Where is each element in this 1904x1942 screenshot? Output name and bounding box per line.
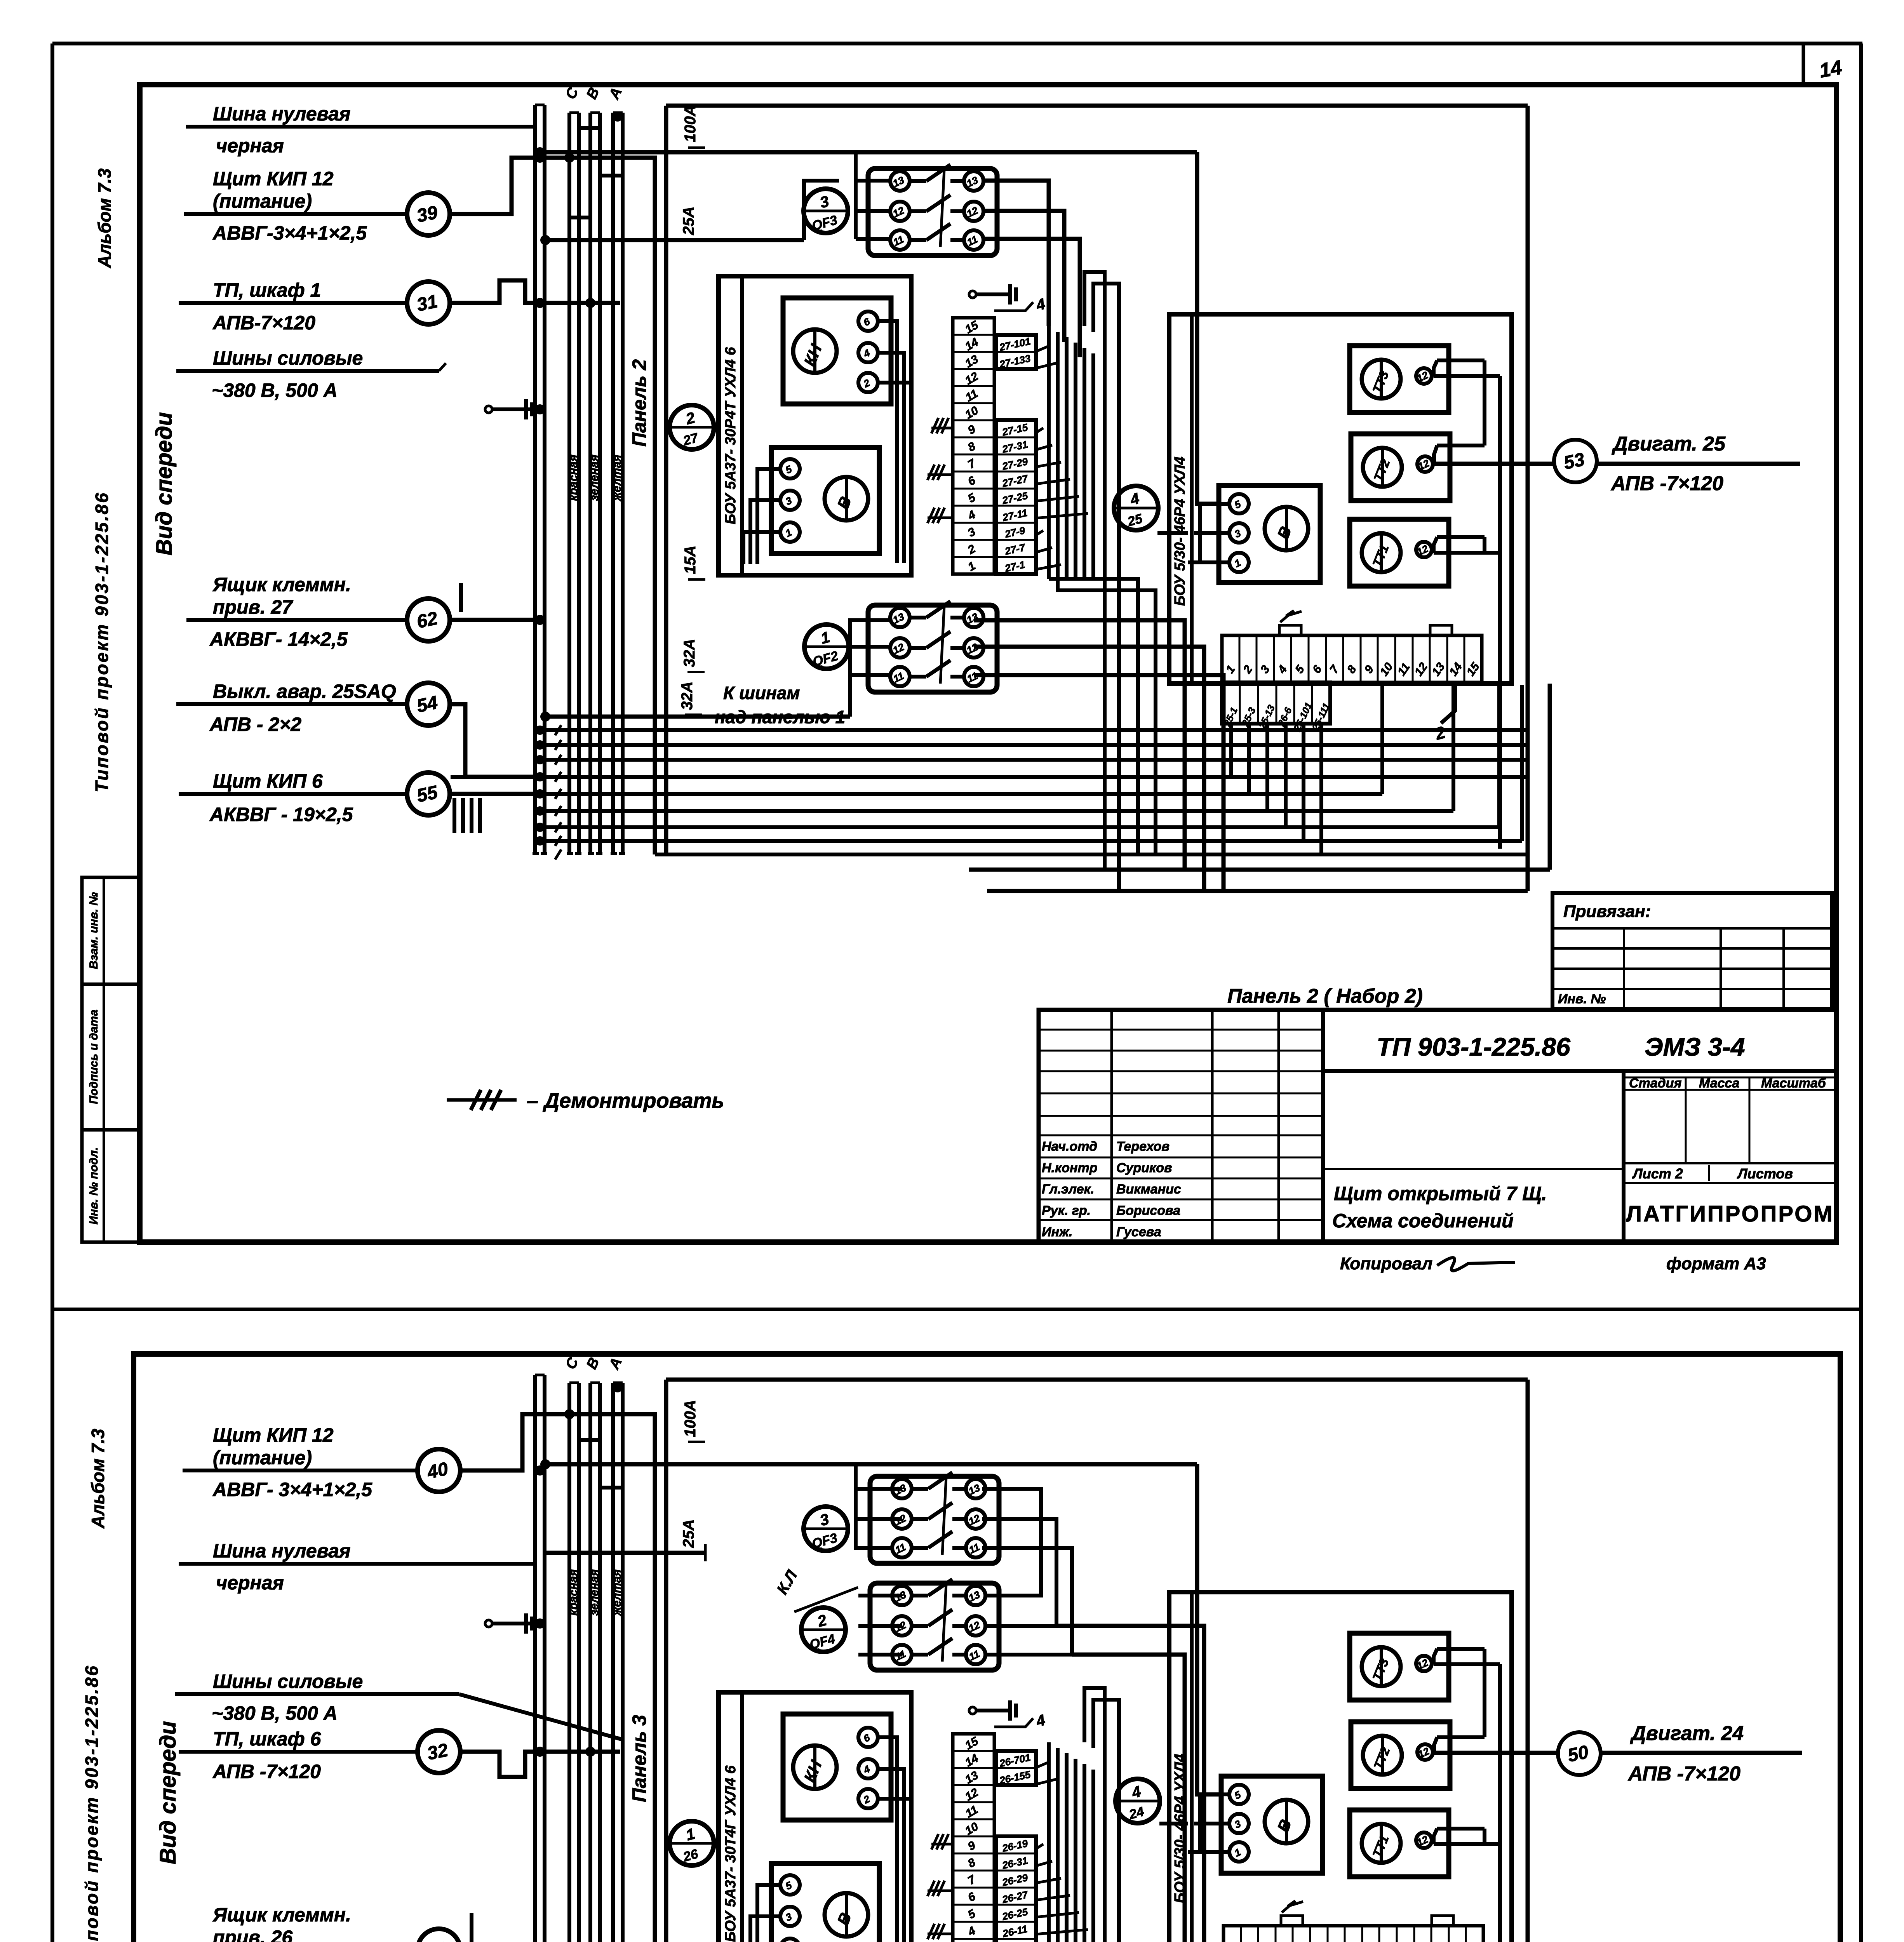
QF3 left drop <box>854 152 858 239</box>
elbow3 <box>569 218 590 240</box>
QF2 out a <box>974 620 1185 870</box>
current transformer TT2 box <box>1351 434 1450 501</box>
svg-text:Ящик клеммн.: Ящик клеммн. <box>212 1904 351 1926</box>
svg-text:АВВГ- 3×4+1×2,5: АВВГ- 3×4+1×2,5 <box>212 1479 372 1500</box>
hatch cb <box>928 1924 935 1939</box>
QF4 stub b <box>858 1624 902 1628</box>
svg-text:Суриков: Суриков <box>1116 1161 1172 1175</box>
sheet separator line <box>52 1308 1861 1311</box>
svg-text:красная: красная <box>567 1569 580 1616</box>
svg-text:~380 В, 500 А: ~380 В, 500 А <box>212 379 338 401</box>
drawing frame <box>134 1354 1840 1942</box>
breaker QF3 box <box>868 169 997 256</box>
svg-text:Копировал: Копировал <box>1340 1254 1432 1273</box>
svg-text:14: 14 <box>1818 56 1844 82</box>
panel designator 2/27 <box>670 405 714 449</box>
current transformer TT3 b box <box>1350 1633 1449 1700</box>
terminal strip XT24 <box>1224 1926 1483 1942</box>
svg-text:Гл.элек.: Гл.элек. <box>1042 1182 1094 1197</box>
wire C drop to B meter <box>1197 152 1220 504</box>
svg-text:АКВВГ- 14×2,5: АКВВГ- 14×2,5 <box>209 628 348 650</box>
QF3b stub a <box>856 1487 902 1491</box>
cable marker 62 <box>407 599 450 641</box>
riser return b <box>1093 284 1119 893</box>
right loop wire <box>1526 106 1530 891</box>
riser return a <box>1084 272 1105 870</box>
svg-text:Ящик клеммн.: Ящик клеммн. <box>212 574 351 595</box>
current transformer TT3 box <box>1350 346 1449 412</box>
wire 39 to strip drop <box>450 158 655 854</box>
svg-text:31: 31 <box>415 291 439 315</box>
svg-text:АПВ - 2×2: АПВ - 2×2 <box>209 713 301 735</box>
breaker QF3 b box <box>870 1476 999 1563</box>
QF3 out wire b <box>982 211 1064 342</box>
svg-text:25А: 25А <box>680 207 697 235</box>
svg-text:Альбом 7.3: Альбом 7.3 <box>94 168 115 268</box>
hatch b <box>928 465 935 480</box>
elbow b2 <box>600 1464 623 1488</box>
label hook wires b <box>1036 1762 1049 1768</box>
QF3 out wire c <box>982 239 1080 357</box>
margin stamp boxes <box>82 877 140 984</box>
terminal strip XT24 lug 2 <box>1432 1916 1453 1926</box>
instrument panel box b <box>719 1692 911 1942</box>
feeder wire 25A <box>545 238 804 242</box>
svg-text:54: 54 <box>415 692 439 717</box>
page outer border right <box>1859 44 1863 1942</box>
wire C drop to B meter b <box>1197 1464 1220 1794</box>
wire 32A <box>545 715 850 719</box>
elbow b <box>579 1440 600 1464</box>
riser return bb <box>1093 1700 1119 1942</box>
top loop wire b <box>666 1378 1528 1382</box>
QF4 out a <box>1072 1655 1185 1942</box>
svg-text:черная: черная <box>216 1572 284 1594</box>
breaker QF2 tie bar <box>940 606 944 684</box>
TT U-loop wires b <box>1434 1662 1500 1666</box>
svg-text:25А: 25А <box>680 1519 697 1548</box>
hatch c <box>928 508 935 523</box>
wire to 4/24 <box>1159 1822 1188 1825</box>
wire bundle bottom <box>540 728 1528 732</box>
svg-text:зеленая: зеленая <box>588 1569 601 1616</box>
bundle risers to panel bottom <box>1380 685 1384 794</box>
svg-text:желтая: желтая <box>611 454 623 501</box>
breaker QF3 b designator <box>804 1507 848 1551</box>
svg-text:прив. 26: прив. 26 <box>213 1926 293 1942</box>
instrument panel box <box>719 276 911 575</box>
QF3b feed <box>856 1464 893 1548</box>
page outer border left <box>50 44 54 1942</box>
svg-text:Вид спереди: Вид спереди <box>151 412 177 555</box>
svg-text:Масштаб: Масштаб <box>1761 1076 1826 1091</box>
svg-text:(питание): (питание) <box>213 1447 312 1469</box>
svg-text:Н.контр: Н.контр <box>1042 1161 1098 1175</box>
right loop riser 2 <box>1548 684 1552 870</box>
svg-text:32А: 32А <box>679 682 696 710</box>
svg-text:БОУ 5А37- 30Р4Т УХЛ4 6: БОУ 5А37- 30Р4Т УХЛ4 6 <box>722 347 739 524</box>
reference box Привязан <box>1552 893 1832 1009</box>
svg-text:Вид спереди: Вид спереди <box>155 1721 181 1864</box>
wire to QF3 <box>804 181 839 240</box>
breaker QF4 b designator <box>801 1608 846 1652</box>
label hook wires <box>1036 346 1049 352</box>
meter В b dial <box>825 1893 868 1937</box>
terminal strip XT27 labels <box>996 420 1036 574</box>
meter В dial <box>825 477 868 520</box>
breaker QF4 b box <box>870 1583 999 1670</box>
svg-text:Гусева: Гусева <box>1116 1225 1161 1239</box>
cable marker 39 <box>407 193 450 235</box>
terminal strip XT25 cable labels <box>1222 682 1330 724</box>
svg-text:ТП, шкаф 1: ТП, шкаф 1 <box>213 279 321 301</box>
bus bars <box>533 105 537 853</box>
current transformer TT1 box <box>1350 519 1449 586</box>
QF3b stub b <box>856 1517 902 1521</box>
terminal strip XT25 lug <box>1279 625 1301 635</box>
panel designator 4/24 <box>1116 1779 1160 1823</box>
svg-text:Подпись и дата: Подпись и дата <box>87 1009 100 1104</box>
meter В right b dial <box>1265 1800 1308 1843</box>
svg-text:53: 53 <box>1562 449 1587 473</box>
svg-text:Инв. № подл.: Инв. № подл. <box>87 1147 100 1224</box>
svg-text:АПВ-7×120: АПВ-7×120 <box>212 312 315 334</box>
cable marker 53 <box>1554 440 1597 482</box>
svg-text:Типовой проект 903-1-225.86: Типовой проект 903-1-225.86 <box>82 1664 102 1942</box>
callout 4 <box>994 302 1033 311</box>
svg-text:100А: 100А <box>682 1400 699 1437</box>
terminal strip XT26 labels 101 <box>996 1751 1036 1785</box>
svg-text:Щит КИП 12: Щит КИП 12 <box>213 1424 334 1446</box>
current transformer TT1 b box <box>1350 1810 1449 1877</box>
cable marker 54 <box>407 683 450 726</box>
QF4 out b <box>1056 1626 1204 1942</box>
svg-text:~380 В, 500 А: ~380 В, 500 А <box>212 1702 338 1724</box>
meter В right dial <box>1265 507 1308 550</box>
svg-text:62: 62 <box>415 608 440 632</box>
terminal strip XT25 lug 2 <box>1430 625 1452 635</box>
svg-text:Листов: Листов <box>1737 1166 1793 1182</box>
terminal strip XT24 lug <box>1281 1916 1303 1926</box>
cable marker 40 <box>418 1449 460 1492</box>
meter В right box <box>1219 486 1320 583</box>
bus bars <box>533 1375 537 1942</box>
strip riser wires b <box>1047 1742 1051 1942</box>
svg-text:формат А3: формат А3 <box>1666 1254 1766 1273</box>
breaker QF2 box <box>868 605 997 692</box>
svg-text:Привязан:: Привязан: <box>1563 902 1651 921</box>
feeder 25A b <box>545 1551 707 1555</box>
strip drop wires <box>1229 724 1233 777</box>
callout 4 b <box>994 1718 1033 1727</box>
svg-text:Нач.отд: Нач.отд <box>1042 1139 1097 1154</box>
svg-text:БОУ 5А37- 30Т4Г УХЛ4 6: БОУ 5А37- 30Т4Г УХЛ4 6 <box>722 1765 739 1942</box>
strip ground tie b <box>969 1707 976 1714</box>
svg-text:черная: черная <box>216 135 284 157</box>
svg-text:15А: 15А <box>682 546 699 574</box>
page outer border top <box>52 42 1862 45</box>
QF2 out b <box>974 647 1204 891</box>
wire to 4/25 <box>1157 531 1188 535</box>
svg-text:Выкл. авар. 25SAQ: Выкл. авар. 25SAQ <box>213 680 396 702</box>
feeder wire C <box>545 150 1197 155</box>
wire 31 to bus <box>450 280 620 303</box>
QF4 stub c <box>858 1653 902 1657</box>
meter В right b box <box>1221 1776 1323 1873</box>
hatch ab <box>931 1834 938 1850</box>
diagonal to bus <box>459 1694 621 1739</box>
svg-text:32: 32 <box>425 1740 450 1764</box>
svg-text:Двигат. 24: Двигат. 24 <box>1630 1722 1744 1745</box>
cable marker 55 <box>407 773 450 815</box>
cable marker 31 <box>407 282 450 324</box>
right loop wire b <box>1526 1380 1530 1942</box>
wire 32 to bus <box>460 1752 620 1777</box>
svg-text:ЭМЗ 3-4: ЭМЗ 3-4 <box>1645 1032 1745 1061</box>
hatch bb <box>928 1881 935 1896</box>
terminal strip XT25 <box>1222 635 1482 682</box>
svg-text:ТП 903-1-225.86: ТП 903-1-225.86 <box>1377 1032 1571 1061</box>
title block sheet 2 <box>1039 1010 1836 1242</box>
elbow2 <box>600 152 623 176</box>
svg-text:Шина нулевая: Шина нулевая <box>213 103 350 125</box>
link c <box>982 1548 1072 1655</box>
link b <box>982 1519 1056 1626</box>
svg-text:Борисова: Борисова <box>1116 1203 1180 1218</box>
breaker QF3 tie bar <box>940 169 944 247</box>
meter panel right box b <box>1169 1592 1512 1942</box>
svg-text:Лист 2: Лист 2 <box>1632 1166 1683 1182</box>
svg-text:Альбом 7.3: Альбом 7.3 <box>88 1429 108 1529</box>
svg-text:Терехов: Терехов <box>1116 1139 1170 1154</box>
wire under note <box>705 728 1062 732</box>
svg-text:АПВ -7×120: АПВ -7×120 <box>1627 1763 1740 1785</box>
svg-text:зеленая: зеленая <box>588 454 601 501</box>
svg-text:(питание): (питание) <box>213 190 312 212</box>
meter КН b dial <box>793 1745 837 1789</box>
meter КН dial <box>793 329 837 373</box>
svg-text:прив. 27: прив. 27 <box>213 596 293 618</box>
svg-text:Панель 2: Панель 2 <box>628 359 650 447</box>
svg-text:над панелью 1: над панелью 1 <box>715 707 845 727</box>
svg-text:АПВ -7×120: АПВ -7×120 <box>212 1761 321 1782</box>
svg-text:Шины силовые: Шины силовые <box>213 1671 363 1692</box>
meter КН box <box>783 298 891 404</box>
svg-text:Щит КИП 6: Щит КИП 6 <box>213 770 323 792</box>
terminal strip XT26 <box>953 1734 994 1942</box>
svg-text:желтая: желтая <box>611 1569 623 1616</box>
svg-text:АПВ -7×120: АПВ -7×120 <box>1610 472 1723 495</box>
svg-text:Типовой проект 903-1-225.86: Типовой проект 903-1-225.86 <box>92 491 112 792</box>
svg-text:50: 50 <box>1566 1742 1591 1766</box>
elbow <box>579 128 600 152</box>
wire 62 to bus <box>450 618 540 622</box>
junction pair4 top b <box>613 1382 623 1392</box>
TT1 wire b <box>1434 1842 1500 1846</box>
svg-text:Инв. №: Инв. № <box>1558 992 1606 1006</box>
svg-text:Шина нулевая: Шина нулевая <box>213 1540 350 1562</box>
svg-text:Щит открытый 7 Щ.: Щит открытый 7 Щ. <box>1334 1183 1547 1204</box>
strip ground tie <box>969 291 976 298</box>
legend demolition <box>447 1098 517 1102</box>
svg-text:АКВВГ - 19×2,5: АКВВГ - 19×2,5 <box>209 804 353 825</box>
svg-text:Стадия: Стадия <box>1629 1076 1682 1091</box>
svg-text:Панель 2 ( Набор 2): Панель 2 ( Набор 2) <box>1227 985 1423 1008</box>
sheet number cell divider <box>1802 44 1805 85</box>
meter В b box <box>771 1864 879 1942</box>
meter В box <box>771 447 879 553</box>
svg-text:Масса: Масса <box>1699 1076 1739 1091</box>
svg-text:40: 40 <box>425 1458 450 1483</box>
svg-text:Схема соединений: Схема соединений <box>1332 1210 1514 1232</box>
cable marker 32 <box>418 1730 460 1773</box>
drawing frame <box>140 85 1836 1242</box>
meter КН b box <box>783 1714 891 1820</box>
top loop wire <box>666 104 1528 108</box>
feeder wire C b <box>545 1462 1197 1467</box>
terminal strip XT24 hatch <box>1282 1901 1303 1912</box>
breaker QF2 designator <box>804 625 849 669</box>
svg-text:Щит КИП 12: Щит КИП 12 <box>213 168 334 190</box>
svg-text:Панель 3: Панель 3 <box>628 1715 650 1802</box>
terminal strip XT27 <box>953 318 994 574</box>
wire 40 to strip drop b <box>460 1414 655 1942</box>
terminal strip XT25 hatch <box>1280 611 1302 622</box>
QF2 feed <box>850 620 891 717</box>
TT2 wire to motor <box>1434 462 1800 466</box>
svg-text:Викманис: Викманис <box>1116 1182 1181 1197</box>
TT2 wire motor b <box>1434 1751 1802 1755</box>
QF4 stub a <box>858 1594 902 1597</box>
ground tie <box>485 406 492 413</box>
svg-text:100А: 100А <box>682 105 699 142</box>
callout 2 wire <box>1441 682 1455 723</box>
svg-text:39: 39 <box>415 202 440 226</box>
QF2 out c <box>974 675 1224 891</box>
cable marker 50 <box>1558 1732 1601 1775</box>
riser bottom a <box>1049 579 1138 854</box>
comb marks <box>453 798 456 833</box>
svg-text:К шинам: К шинам <box>723 683 800 703</box>
TT1 wire <box>1434 551 1500 555</box>
current transformer TT2 b box <box>1351 1722 1450 1789</box>
svg-text:ЛАТГИПРОПРОМ: ЛАТГИПРОПРОМ <box>1626 1201 1834 1227</box>
svg-text:ТП, шкаф 6: ТП, шкаф 6 <box>213 1728 322 1750</box>
panel designator 4/25 <box>1114 486 1158 530</box>
cable marker 58 <box>418 1929 460 1942</box>
breaker QF3 b tie bar <box>942 1477 946 1555</box>
terminal strip XT26 labels <box>996 1836 1036 1942</box>
strip riser wires <box>1047 326 1051 579</box>
bottom loop wire <box>987 889 1528 893</box>
panel designator 1/26 <box>670 1821 714 1865</box>
link a <box>982 1489 1041 1596</box>
panel feeder drop b <box>664 1380 668 1942</box>
svg-text:БОУ 5/30- 46Р4 УХЛ4: БОУ 5/30- 46Р4 УХЛ4 <box>1172 1754 1188 1903</box>
terminal strip XT27 labels 101 <box>996 335 1036 369</box>
svg-text:Взам. инв. №: Взам. инв. № <box>87 892 100 969</box>
breaker QF3 designator <box>804 189 848 233</box>
bottom loop wire 2 <box>969 868 1550 872</box>
junction pair4 top <box>613 111 623 122</box>
tick 58 <box>470 1913 473 1942</box>
tick <box>459 583 463 612</box>
riser bottom b <box>1058 579 1156 854</box>
meter panel right box <box>1169 314 1512 684</box>
wire 54 riser <box>450 704 540 777</box>
QF3 out wire a <box>982 181 1049 326</box>
svg-text:Шины силовые: Шины силовые <box>213 347 363 369</box>
ground tie bottom <box>485 1620 492 1627</box>
riser return ab <box>1084 1688 1105 1942</box>
breaker QF4 b tie bar <box>942 1584 946 1662</box>
svg-text:32А: 32А <box>681 639 698 667</box>
panel feeder drop <box>664 106 668 853</box>
TT U-loop wires <box>1434 374 1500 378</box>
hatch a <box>931 418 938 433</box>
svg-text:красная: красная <box>567 454 580 501</box>
wire 55 to bundle <box>450 792 540 796</box>
svg-text:АВВГ-3×4+1×2,5: АВВГ-3×4+1×2,5 <box>212 222 367 244</box>
svg-text:– Демонтировать: – Демонтировать <box>527 1089 724 1112</box>
svg-text:Инж.: Инж. <box>1042 1225 1072 1239</box>
svg-text:Двигат. 25: Двигат. 25 <box>1612 433 1726 455</box>
svg-text:Рук. гр.: Рук. гр. <box>1042 1203 1091 1218</box>
